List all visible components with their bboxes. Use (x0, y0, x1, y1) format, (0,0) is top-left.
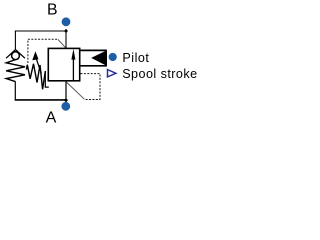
svg-text:A: A (46, 110, 57, 127)
svg-text:Pilot: Pilot (122, 51, 149, 65)
svg-text:Spool stroke: Spool stroke (122, 67, 197, 81)
svg-text:B: B (47, 2, 58, 19)
